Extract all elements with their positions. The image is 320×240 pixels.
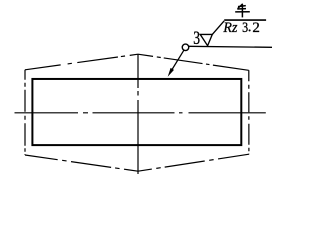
svg-text:3: 3 <box>193 28 200 49</box>
svg-text:Rz: Rz <box>222 20 237 36</box>
svg-text:2: 2 <box>252 20 260 36</box>
svg-text:3: 3 <box>242 20 248 36</box>
